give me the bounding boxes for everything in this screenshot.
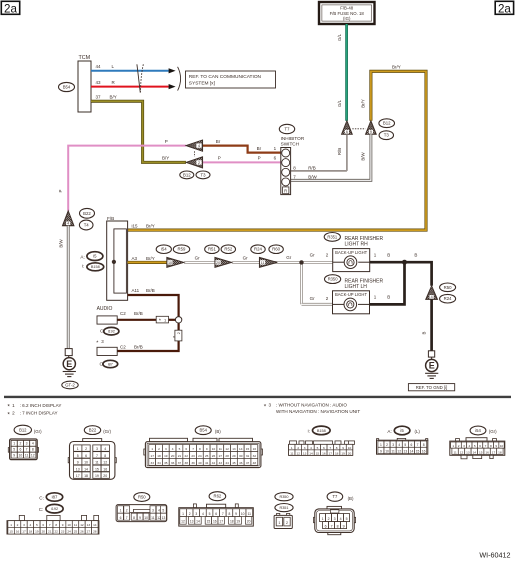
svg-text:5: 5: [346, 517, 348, 521]
svg-text:A11: A11: [132, 288, 140, 293]
svg-text:6: 6: [19, 447, 21, 451]
svg-text:41: 41: [205, 461, 209, 465]
svg-text:16: 16: [322, 451, 326, 455]
svg-text:1: 1: [322, 517, 324, 521]
svg-text:10: 10: [168, 261, 172, 265]
svg-text:35: 35: [164, 461, 168, 465]
svg-text:i5: i5: [93, 254, 97, 259]
svg-text:: WITHOUT NAVIGATION : AUDIO: : WITHOUT NAVIGATION : AUDIO: [276, 403, 347, 408]
svg-text:13: 13: [466, 450, 470, 454]
svg-text:8: 8: [229, 512, 231, 516]
svg-text:9: 9: [343, 524, 345, 528]
svg-text:12: 12: [181, 520, 185, 524]
svg-text:25: 25: [74, 530, 78, 534]
svg-text:4: 4: [310, 446, 312, 450]
svg-text:2: 2: [158, 447, 160, 451]
svg-text:23: 23: [191, 454, 195, 458]
svg-text:B: B: [422, 331, 427, 334]
svg-text:Br/B: Br/B: [146, 288, 155, 293]
svg-text:7: 7: [222, 512, 224, 516]
svg-text:(B): (B): [215, 429, 221, 434]
svg-text:20: 20: [42, 530, 46, 534]
svg-text:3: 3: [304, 446, 306, 450]
svg-text:14: 14: [196, 520, 200, 524]
svg-text:Br/Y: Br/Y: [361, 99, 366, 108]
svg-text:22: 22: [185, 454, 189, 458]
svg-text:28: 28: [225, 454, 229, 458]
svg-text:2: 2: [328, 517, 330, 521]
svg-text:4: 4: [431, 295, 433, 299]
svg-text:GT-2: GT-2: [65, 383, 75, 388]
svg-text:13: 13: [404, 449, 408, 453]
svg-text:7: 7: [192, 447, 194, 451]
svg-text:2: 2: [386, 443, 388, 447]
svg-text:7: 7: [329, 446, 331, 450]
svg-text:36: 36: [171, 461, 175, 465]
svg-text:R51: R51: [208, 247, 216, 252]
svg-text:: 6.2 INCH DISPLAY: : 6.2 INCH DISPLAY: [20, 403, 62, 408]
svg-text:B158: B158: [91, 265, 100, 269]
svg-text:9: 9: [139, 516, 141, 520]
svg-text:G/L: G/L: [337, 99, 342, 107]
svg-text:22: 22: [54, 530, 58, 534]
svg-text:B22: B22: [83, 211, 91, 216]
svg-text:15: 15: [95, 467, 99, 471]
svg-text:15: 15: [246, 447, 250, 451]
svg-text:7: 7: [485, 444, 487, 448]
svg-text:2: 2: [189, 512, 191, 516]
svg-text:R351: R351: [279, 506, 288, 510]
svg-text:9: 9: [13, 453, 15, 457]
svg-text:30: 30: [239, 454, 243, 458]
svg-text:A3: A3: [132, 256, 138, 261]
svg-text:19: 19: [35, 530, 39, 534]
svg-text:B54: B54: [199, 428, 207, 433]
svg-text:13: 13: [87, 523, 91, 527]
svg-text:LIGHT RH: LIGHT RH: [345, 242, 369, 248]
svg-text:A:: A:: [80, 255, 84, 260]
svg-text:3: 3: [26, 442, 28, 446]
svg-text:i192: i192: [51, 507, 58, 511]
svg-text:4: 4: [202, 512, 204, 516]
svg-text:i87: i87: [52, 495, 58, 500]
svg-text:9: 9: [495, 444, 497, 448]
svg-text:34: 34: [157, 461, 161, 465]
svg-text:31: 31: [246, 454, 250, 458]
svg-text:1: 1: [10, 523, 12, 527]
svg-text:11: 11: [391, 449, 395, 453]
svg-text:21: 21: [178, 454, 182, 458]
svg-text:B12: B12: [183, 172, 191, 177]
svg-text:14: 14: [84, 467, 88, 471]
svg-text:B22: B22: [89, 428, 97, 433]
svg-text:12: 12: [296, 451, 300, 455]
svg-text:18: 18: [335, 451, 339, 455]
svg-text:G/L: G/L: [337, 33, 342, 41]
svg-text:3: 3: [269, 403, 272, 408]
svg-text:18: 18: [84, 474, 88, 478]
svg-text:C2: C2: [120, 311, 126, 316]
svg-text:B12: B12: [19, 427, 27, 432]
svg-text:REF. TO GND [i]: REF. TO GND [i]: [416, 385, 448, 390]
svg-text:P: P: [165, 139, 168, 144]
svg-text:R350: R350: [279, 495, 288, 499]
svg-text:40: 40: [198, 461, 202, 465]
svg-text:33: 33: [150, 461, 154, 465]
svg-text:18: 18: [498, 450, 502, 454]
svg-text:(B): (B): [348, 496, 354, 501]
svg-text:23: 23: [61, 530, 65, 534]
svg-text:14: 14: [473, 450, 477, 454]
svg-text:8: 8: [336, 446, 338, 450]
svg-text:8: 8: [490, 444, 492, 448]
svg-text:B/W: B/W: [308, 175, 317, 180]
svg-text:REF. TO CAN COMMUNICATION: REF. TO CAN COMMUNICATION: [189, 74, 262, 80]
svg-text:C2: C2: [120, 345, 126, 350]
svg-text:11: 11: [290, 451, 293, 455]
svg-text:20: 20: [247, 520, 251, 524]
svg-text:5: 5: [77, 454, 79, 458]
svg-text:48: 48: [253, 461, 257, 465]
svg-text:B/Y: B/Y: [162, 156, 169, 161]
svg-text:18: 18: [157, 454, 161, 458]
svg-text:43: 43: [96, 80, 102, 85]
svg-text:7: 7: [49, 523, 51, 527]
svg-text:4: 4: [158, 509, 160, 513]
svg-text:6: 6: [346, 130, 348, 134]
svg-text:11: 11: [151, 516, 155, 520]
svg-text:14: 14: [239, 447, 243, 451]
svg-text:2: 2: [297, 446, 299, 450]
svg-text:5: 5: [179, 447, 181, 451]
svg-text:13: 13: [190, 520, 194, 524]
svg-text:12: 12: [397, 449, 401, 453]
svg-text:25: 25: [205, 454, 209, 458]
svg-text:R351: R351: [327, 234, 338, 239]
svg-text:5: 5: [209, 512, 211, 516]
svg-text:1: 1: [120, 509, 122, 513]
svg-text:B54: B54: [63, 85, 71, 90]
svg-text:2: 2: [12, 411, 15, 416]
svg-text:Br: Br: [216, 139, 221, 144]
svg-text:42: 42: [212, 461, 216, 465]
svg-text:6: 6: [325, 524, 327, 528]
svg-text:4: 4: [67, 222, 69, 226]
svg-text:18: 18: [29, 530, 33, 534]
svg-text:Br/Y: Br/Y: [146, 256, 155, 261]
svg-text:B12: B12: [383, 121, 391, 126]
svg-text:12: 12: [103, 461, 107, 465]
svg-text:1: 1: [77, 447, 79, 451]
svg-text:3: 3: [165, 447, 167, 451]
svg-text:: 7 INCH DISPLAY: : 7 INCH DISPLAY: [20, 411, 58, 416]
svg-text:SYSTEM [x]: SYSTEM [x]: [189, 81, 215, 87]
svg-text:10: 10: [67, 523, 71, 527]
svg-text:R24: R24: [444, 296, 452, 301]
svg-text:21: 21: [48, 530, 52, 534]
svg-text:8: 8: [199, 447, 201, 451]
svg-text:Br/Y: Br/Y: [146, 223, 155, 228]
svg-text:2a: 2a: [4, 2, 17, 15]
svg-text:28: 28: [93, 530, 97, 534]
svg-text:3: 3: [463, 444, 465, 448]
svg-text:29: 29: [232, 454, 236, 458]
svg-text:i87: i87: [108, 362, 113, 366]
svg-text:3: 3: [23, 523, 25, 527]
svg-text:24: 24: [198, 454, 202, 458]
svg-text:1: 1: [291, 446, 293, 450]
svg-text:6: 6: [120, 516, 122, 520]
svg-text:2: 2: [85, 447, 87, 451]
svg-text:11: 11: [453, 450, 456, 454]
svg-text:R50: R50: [138, 495, 146, 500]
svg-text:*: *: [173, 336, 179, 338]
svg-text:24: 24: [67, 530, 71, 534]
svg-text:8: 8: [133, 516, 135, 520]
svg-text:(Gr): (Gr): [34, 429, 42, 434]
svg-text:R59: R59: [178, 247, 186, 252]
svg-text:T7: T7: [332, 494, 338, 499]
svg-text:10: 10: [500, 444, 504, 448]
svg-text:Gr: Gr: [243, 255, 249, 260]
svg-text:16: 16: [103, 467, 107, 471]
svg-text:27: 27: [87, 530, 91, 534]
svg-text:37: 37: [96, 95, 102, 100]
svg-text:10: 10: [385, 449, 389, 453]
svg-text:16: 16: [213, 520, 217, 524]
svg-text:R350: R350: [328, 277, 339, 282]
svg-text:13: 13: [232, 447, 236, 451]
svg-text:R50: R50: [444, 285, 452, 290]
svg-text:13: 13: [76, 467, 80, 471]
svg-text:5: 5: [36, 523, 38, 527]
svg-text:44: 44: [225, 461, 229, 465]
svg-text:3: 3: [195, 512, 197, 516]
svg-text:12: 12: [460, 450, 464, 454]
svg-text:11: 11: [248, 512, 252, 516]
svg-text:F/B: F/B: [107, 216, 114, 221]
svg-text:TCM: TCM: [79, 55, 91, 61]
svg-text:2: 2: [177, 332, 181, 334]
svg-text:43: 43: [219, 461, 223, 465]
svg-text:15: 15: [316, 451, 320, 455]
svg-text:4: 4: [30, 523, 32, 527]
svg-text:4: 4: [340, 517, 342, 521]
svg-text:7: 7: [96, 454, 98, 458]
svg-text:1: 1: [452, 444, 454, 448]
svg-text:27: 27: [219, 454, 223, 458]
svg-text:2: 2: [19, 442, 21, 446]
svg-text:3: 3: [152, 509, 154, 513]
svg-text:E: E: [429, 361, 435, 371]
svg-text:18: 18: [230, 520, 234, 524]
svg-text:R62: R62: [214, 494, 222, 499]
svg-text:R24: R24: [254, 247, 262, 252]
svg-text:17: 17: [219, 520, 223, 524]
svg-text:7: 7: [331, 524, 333, 528]
svg-text:B: B: [387, 252, 390, 257]
svg-text:8: 8: [337, 524, 339, 528]
svg-text:B/W: B/W: [59, 239, 64, 248]
svg-text:45: 45: [232, 461, 236, 465]
svg-text:7: 7: [126, 516, 128, 520]
svg-text:32: 32: [253, 454, 257, 458]
svg-text:i:: i:: [82, 263, 84, 268]
svg-text:1: 1: [182, 512, 184, 516]
svg-text:9: 9: [77, 461, 79, 465]
svg-text:6: 6: [42, 523, 44, 527]
svg-text:12: 12: [225, 447, 229, 451]
svg-text:1: 1: [13, 442, 15, 446]
svg-text:Gr: Gr: [195, 255, 201, 260]
svg-text:44: 44: [96, 64, 102, 69]
svg-text:2: 2: [458, 444, 460, 448]
svg-text:2a: 2a: [498, 2, 511, 15]
svg-text:Gr: Gr: [310, 296, 316, 301]
svg-text:3: 3: [392, 443, 394, 447]
svg-text:12: 12: [80, 523, 84, 527]
svg-text:B158: B158: [317, 429, 326, 433]
svg-text:(IG): (IG): [343, 16, 351, 21]
svg-text:11: 11: [261, 261, 265, 265]
svg-text:6: 6: [411, 443, 413, 447]
svg-text:2: 2: [198, 161, 200, 165]
svg-text:1: 1: [278, 521, 280, 525]
svg-text:R: R: [284, 189, 287, 194]
svg-text:17: 17: [150, 454, 154, 458]
svg-text:19: 19: [236, 520, 240, 524]
svg-text:10: 10: [241, 512, 245, 516]
svg-text:4: 4: [104, 447, 106, 451]
svg-text:8: 8: [55, 523, 57, 527]
svg-text:WI-60412: WI-60412: [479, 551, 510, 560]
svg-text:46: 46: [239, 461, 243, 465]
svg-text:SWITCH: SWITCH: [281, 141, 300, 146]
svg-text:E: E: [66, 359, 72, 369]
svg-text:11: 11: [219, 447, 222, 451]
svg-text:4: 4: [469, 444, 471, 448]
svg-text:B/W: B/W: [361, 152, 366, 161]
svg-text:10: 10: [84, 461, 88, 465]
svg-text:10: 10: [19, 453, 23, 457]
svg-text:20: 20: [103, 474, 107, 478]
svg-text:Gr: Gr: [310, 253, 316, 258]
svg-text:3: 3: [334, 517, 336, 521]
svg-text:37: 37: [178, 461, 182, 465]
svg-text:i15: i15: [132, 223, 139, 228]
svg-text:17: 17: [22, 530, 26, 534]
svg-text:LIGHT LH: LIGHT LH: [345, 284, 368, 290]
svg-text:10: 10: [212, 447, 216, 451]
svg-text:16: 16: [422, 449, 426, 453]
svg-text:4: 4: [398, 443, 400, 447]
svg-text:15: 15: [416, 449, 420, 453]
svg-text:8: 8: [32, 447, 34, 451]
svg-text:C:: C:: [39, 507, 44, 512]
svg-text:11: 11: [25, 453, 29, 457]
svg-text:19: 19: [164, 454, 168, 458]
svg-text:B: B: [414, 252, 417, 257]
svg-text:9: 9: [380, 449, 382, 453]
svg-text:1: 1: [12, 403, 15, 408]
svg-text:9: 9: [370, 130, 372, 134]
svg-text:B: B: [387, 295, 390, 300]
svg-text:R/B: R/B: [308, 165, 316, 170]
svg-text:i54: i54: [475, 428, 481, 433]
svg-text:(Gr): (Gr): [103, 429, 111, 434]
svg-text:15: 15: [9, 530, 13, 534]
svg-text:R52: R52: [224, 247, 232, 252]
svg-text:T7: T7: [285, 127, 291, 132]
svg-text:9: 9: [206, 447, 208, 451]
svg-text:5: 5: [317, 446, 319, 450]
svg-text:9: 9: [235, 512, 237, 516]
svg-text:(L): (L): [415, 429, 421, 434]
svg-text:2: 2: [286, 521, 288, 525]
svg-text:5: 5: [474, 444, 476, 448]
svg-text:5: 5: [404, 443, 406, 447]
svg-text:BACK-UP LIGHT: BACK-UP LIGHT: [335, 292, 367, 297]
svg-text:6: 6: [85, 454, 87, 458]
svg-text:2: 2: [17, 523, 19, 527]
svg-text:2: 2: [126, 509, 128, 513]
svg-text:14: 14: [410, 449, 414, 453]
svg-text:10: 10: [348, 446, 352, 450]
svg-text:38: 38: [185, 461, 189, 465]
svg-text:16: 16: [16, 530, 20, 534]
svg-text:9: 9: [342, 446, 344, 450]
svg-text:26: 26: [80, 530, 84, 534]
svg-text:6: 6: [323, 446, 325, 450]
svg-text:19: 19: [341, 451, 345, 455]
svg-text:6: 6: [185, 447, 187, 451]
svg-text:B/Y: B/Y: [110, 95, 117, 100]
svg-text:T3: T3: [200, 172, 206, 177]
svg-text:(Gr): (Gr): [489, 429, 497, 434]
svg-text:*: *: [159, 319, 161, 325]
svg-text:9: 9: [62, 523, 64, 527]
svg-text:5: 5: [13, 447, 15, 451]
svg-text:14: 14: [309, 451, 313, 455]
svg-text:39: 39: [191, 461, 195, 465]
svg-text:16: 16: [485, 450, 489, 454]
svg-text:R60: R60: [272, 247, 280, 252]
svg-text:Br/B: Br/B: [134, 311, 143, 316]
svg-text:i:: i:: [308, 429, 310, 434]
svg-text:20: 20: [216, 261, 220, 265]
svg-text:5: 5: [162, 509, 164, 513]
svg-text:6: 6: [479, 444, 481, 448]
svg-text:C:: C:: [39, 496, 44, 501]
svg-text:26: 26: [212, 454, 216, 458]
svg-text:Gr: Gr: [286, 255, 292, 260]
svg-text:F/B FUSE NO. 18: F/B FUSE NO. 18: [330, 11, 365, 16]
svg-text:20: 20: [348, 451, 352, 455]
svg-text:11: 11: [95, 461, 99, 465]
svg-text:14: 14: [93, 523, 97, 527]
svg-text:BACK-UP LIGHT: BACK-UP LIGHT: [335, 250, 367, 255]
svg-text:WITH NAVIGATION : NAVIGATION U: WITH NAVIGATION : NAVIGATION UNIT: [276, 409, 360, 414]
svg-text:F/B-48: F/B-48: [340, 5, 354, 10]
svg-text:17: 17: [329, 451, 333, 455]
svg-text:R/B: R/B: [337, 148, 342, 155]
svg-text:4: 4: [198, 144, 200, 148]
svg-text:Br/Y: Br/Y: [392, 64, 401, 69]
svg-text:Br/B: Br/B: [134, 345, 143, 350]
svg-text:T3: T3: [384, 133, 390, 138]
svg-text:11: 11: [74, 523, 77, 527]
svg-text:1: 1: [151, 447, 153, 451]
